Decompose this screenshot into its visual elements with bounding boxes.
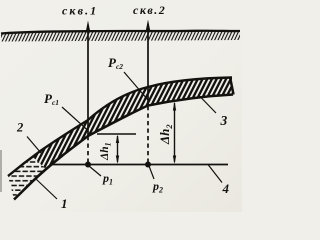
band bottom edge (line 1, floor of layer) <box>14 95 233 200</box>
leader line Pc1 <box>62 107 88 131</box>
ground surface line <box>1 31 240 34</box>
svg-text:1: 1 <box>61 196 68 211</box>
svg-text:2: 2 <box>16 121 23 135</box>
dimension delta-h1 level tick <box>97 133 136 135</box>
water-bearing dashed fill (layer 2) <box>3 146 48 206</box>
dimension delta-h2 arrow <box>173 102 176 165</box>
scan edge artifact left <box>0 150 2 192</box>
ground hatching <box>1 31 240 42</box>
leader line 4 <box>208 165 222 183</box>
well 1 borehole line <box>87 25 89 136</box>
node p2 dot <box>145 162 151 168</box>
well 1 arrowhead <box>86 21 90 32</box>
leader line 1 <box>36 179 57 199</box>
dimension delta-h1 arrow <box>116 135 119 165</box>
svg-text:скв.2: скв.2 <box>133 3 166 17</box>
well 2 dashed extension <box>147 106 149 164</box>
svg-text:скв.1: скв.1 <box>62 4 98 18</box>
confined aquifer band fill (hatched part, layer 3) <box>20 20 242 171</box>
well 1 dashed extension <box>87 136 89 164</box>
leader line 3 <box>200 97 216 114</box>
node p1 dot <box>85 162 91 168</box>
leader line p1 <box>89 166 101 176</box>
svg-text:3: 3 <box>220 113 228 128</box>
datum line 4 <box>51 164 228 166</box>
well 2 borehole line <box>147 24 149 106</box>
leader line p2 <box>149 166 154 179</box>
well 2 arrowhead <box>146 20 150 31</box>
band right end cut <box>230 77 234 95</box>
leader line 2 <box>27 137 41 154</box>
band top edge (roof of layer) <box>8 78 232 177</box>
svg-text:4: 4 <box>222 181 230 196</box>
leader line Pc2 <box>124 72 148 100</box>
